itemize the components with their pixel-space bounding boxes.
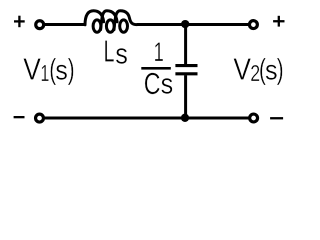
inductor Ls coil bbox=[85, 11, 137, 33]
terminal bottom-left bbox=[36, 114, 44, 122]
svg-text:s: s bbox=[115, 37, 128, 70]
svg-text:L: L bbox=[104, 35, 115, 68]
plus sign right (output polarity +) bbox=[273, 16, 284, 27]
terminal top-left bbox=[36, 21, 44, 29]
svg-text:s: s bbox=[265, 54, 278, 86]
svg-text:C: C bbox=[144, 66, 161, 101]
capacitor top plate bbox=[175, 64, 197, 67]
svg-text:): ) bbox=[277, 54, 284, 86]
terminal bottom-right bbox=[250, 114, 258, 122]
svg-text:): ) bbox=[68, 54, 75, 86]
capacitor bottom lead bbox=[184, 75, 187, 118]
plus sign left (input polarity +) bbox=[14, 16, 25, 28]
junction node bottom bbox=[181, 114, 189, 122]
capacitor 1/Cs : top lead bbox=[184, 24, 187, 64]
minus sign left (input polarity -) bbox=[14, 116, 25, 118]
minus sign right (output polarity -) bbox=[270, 117, 283, 119]
svg-text:1: 1 bbox=[154, 36, 164, 66]
fraction bar bbox=[141, 67, 171, 70]
svg-text:s: s bbox=[55, 54, 68, 86]
wire top-right segment bbox=[137, 23, 249, 26]
svg-text:V: V bbox=[233, 53, 251, 87]
svg-text:s: s bbox=[161, 68, 174, 100]
svg-text:1: 1 bbox=[40, 61, 49, 86]
wire bottom segment bbox=[45, 117, 249, 120]
svg-text:V: V bbox=[23, 53, 41, 87]
terminal top-right bbox=[249, 21, 257, 29]
wire top-left segment bbox=[45, 23, 87, 26]
capacitor bottom plate bbox=[175, 72, 197, 75]
junction node top bbox=[181, 20, 189, 28]
